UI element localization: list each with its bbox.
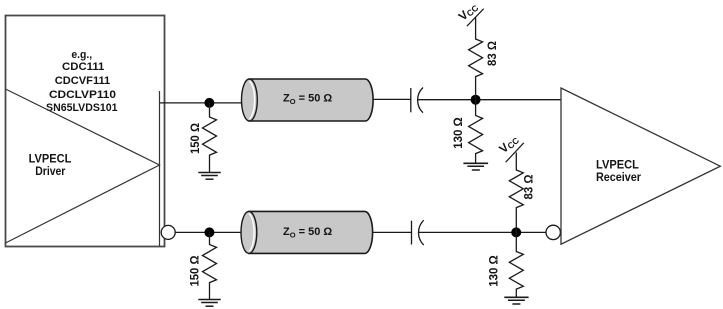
svg-text:130 Ω: 130 Ω: [486, 255, 500, 287]
resistor R4 130 ohm: [469, 100, 483, 164]
node junction J1: [204, 98, 214, 108]
svg-text:Receiver: Receiver: [596, 170, 641, 184]
wire: bubble to T2: [175, 231, 243, 233]
svg-text:150 Ω: 150 Ω: [188, 123, 202, 154]
resistor R2 150 ohm: [203, 232, 217, 299]
svg-text:83 Ω: 83 Ω: [485, 41, 499, 66]
wire: T1 to C1: [373, 98, 412, 100]
node junction J2: [471, 95, 481, 105]
wire: C2 to receiver inverting input bubble: [419, 231, 547, 233]
driver triangle (LVPECL driver amp): [6, 89, 160, 243]
svg-text:CDC111: CDC111: [62, 61, 104, 73]
ground for R2: [198, 300, 220, 307]
resistor R1 150 ohm: [203, 103, 217, 173]
svg-text:VCC: VCC: [456, 0, 481, 24]
node junction J3: [204, 227, 214, 237]
driver IC box U1: [6, 16, 165, 247]
Vcc symbol (bottom): [496, 132, 523, 162]
capacitor C1: [411, 88, 423, 113]
resistor R3 83 ohm: [469, 18, 483, 100]
transmission line T2 Zo=50: [241, 211, 373, 253]
Vcc symbol (top): [456, 0, 484, 26]
svg-text:e.g.,: e.g.,: [71, 49, 92, 61]
resistor R6 130 ohm: [509, 232, 523, 297]
wire: driver noninverting output to T1: [160, 102, 243, 104]
receiver triangle U2: [561, 88, 720, 244]
ground for R4: [463, 163, 488, 170]
driver inverting output bubble: [161, 225, 175, 239]
node junction J4: [511, 227, 521, 237]
wire: C1 to receiver noninverting input: [418, 99, 561, 101]
wire: T2 to C2: [372, 231, 412, 233]
svg-text:SN65LVDS101: SN65LVDS101: [46, 102, 118, 114]
resistor R5 83 ohm: [509, 153, 523, 233]
svg-text:83 Ω: 83 Ω: [521, 174, 535, 199]
capacitor C2: [412, 220, 424, 245]
transmission line T1 Zo=50: [242, 79, 374, 121]
receiver input bubble: [546, 225, 560, 239]
svg-text:VCC: VCC: [496, 132, 521, 156]
ground for R6: [504, 297, 528, 304]
svg-text:Driver: Driver: [35, 164, 65, 178]
svg-text:130 Ω: 130 Ω: [451, 117, 465, 149]
driver output bus line: [159, 91, 161, 246]
svg-text:150 Ω: 150 Ω: [187, 255, 201, 286]
ground for R1: [198, 173, 220, 180]
svg-text:CDCVF111: CDCVF111: [55, 75, 110, 87]
svg-text:CDCLVP110: CDCLVP110: [49, 89, 116, 101]
